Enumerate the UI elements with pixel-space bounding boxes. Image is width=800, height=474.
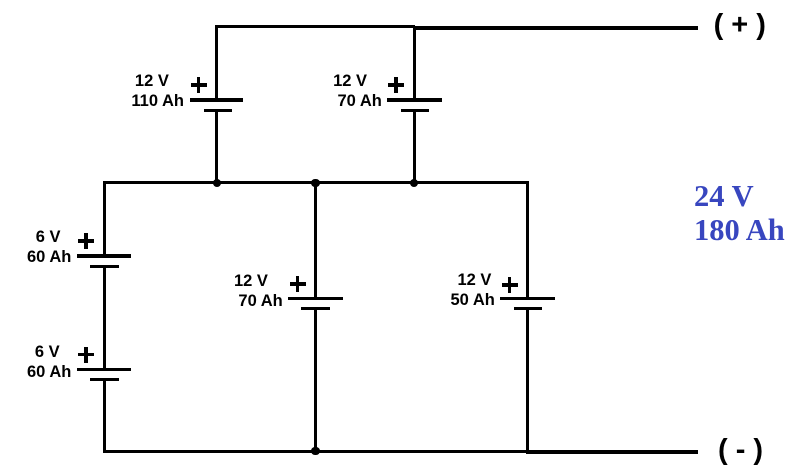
- battery B5 plus polarity mark: [290, 282, 306, 285]
- wire middle branch lower segment: [314, 309, 317, 451]
- battery B3 value label 6 V: [36, 229, 61, 246]
- battery B2 value label 70 Ah: [338, 93, 382, 110]
- battery B6 plus polarity mark: [502, 283, 518, 286]
- wire left branch upper segment: [103, 181, 106, 256]
- battery B1 12V 110Ah positive plate: [190, 98, 243, 101]
- net total rating label 180 Ah: [694, 215, 785, 246]
- battery B5 12V 70Ah negative plate: [301, 307, 330, 310]
- wire right branch lower segment: [526, 309, 529, 452]
- battery B2 plus polarity mark: [388, 83, 404, 86]
- node positive terminal label (+): [714, 11, 766, 40]
- battery B3 6V 60Ah negative plate: [90, 265, 119, 268]
- node junction dot on bus at B2 branch: [410, 179, 419, 188]
- battery B6 value label 50 Ah: [451, 292, 495, 309]
- battery B1 plus polarity mark: [191, 83, 207, 86]
- battery B6 12V 50Ah positive plate: [500, 297, 554, 300]
- wire left branch middle segment: [103, 267, 106, 370]
- node negative terminal label (-): [718, 436, 763, 465]
- battery B4 value label 60 Ah: [27, 364, 71, 381]
- battery B5 value label 70 Ah: [238, 293, 282, 310]
- wire middle branch upper segment: [314, 181, 317, 296]
- battery B3 value label 60 Ah: [27, 249, 71, 266]
- battery B4 plus polarity mark: [78, 353, 94, 356]
- wire bottom bus right segment to (-) terminal: [526, 450, 698, 454]
- wire battery B1 top stub: [215, 25, 218, 100]
- wire left branch lower segment: [103, 380, 106, 452]
- node junction dot on bus at middle branch: [311, 179, 320, 188]
- battery B4 value label 6 V: [35, 344, 60, 361]
- node junction dot on bottom bus at middle branch: [311, 447, 320, 456]
- battery B6 value label 12 V: [458, 272, 492, 289]
- battery B2 value label 12 V: [333, 73, 367, 90]
- battery B2 12V 70Ah negative plate: [401, 109, 430, 112]
- battery B1 value label 110 Ah: [131, 93, 184, 110]
- battery B1 value label 12 V: [135, 73, 169, 90]
- wire battery B1 bottom stub: [215, 111, 218, 185]
- battery B3 plus polarity mark: [78, 239, 94, 242]
- wire top bus left segment: [215, 25, 415, 28]
- wire top bus right segment to (+) terminal: [413, 26, 698, 30]
- node junction dot on bus at B1 branch: [213, 179, 222, 188]
- wire middle bus: [103, 181, 529, 184]
- battery B4 6V 60Ah negative plate: [90, 378, 119, 381]
- battery B1 12V 110Ah negative plate: [204, 109, 232, 112]
- wire bottom bus left segment: [103, 450, 529, 453]
- battery B3 6V 60Ah positive plate: [77, 254, 131, 257]
- battery B2 12V 70Ah positive plate: [387, 98, 441, 101]
- battery B5 12V 70Ah positive plate: [288, 297, 342, 300]
- battery B6 12V 50Ah negative plate: [514, 307, 542, 310]
- wire right branch upper segment: [526, 181, 529, 296]
- wire battery B2 bottom stub: [413, 111, 416, 185]
- net total rating label 24 V: [694, 181, 754, 212]
- battery B5 value label 12 V: [234, 273, 268, 290]
- wire battery B2 top stub: [413, 26, 416, 100]
- battery B4 6V 60Ah positive plate: [77, 368, 131, 371]
